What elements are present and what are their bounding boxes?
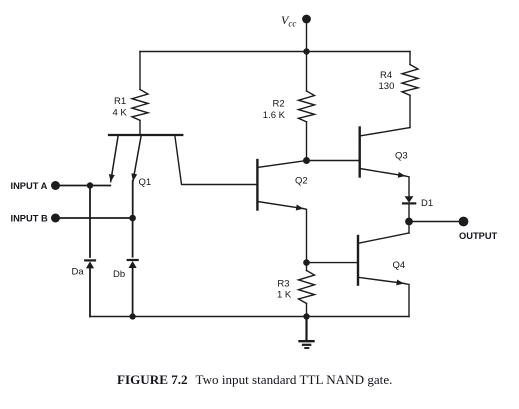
svg-text:Q4: Q4 <box>393 260 406 271</box>
svg-text:Da: Da <box>72 267 85 278</box>
svg-text:INPUT B: INPUT B <box>11 213 48 223</box>
svg-text:Q2: Q2 <box>295 176 308 187</box>
svg-text:R3: R3 <box>277 279 289 290</box>
svg-text:R1: R1 <box>114 96 126 107</box>
svg-text:D1: D1 <box>421 198 433 209</box>
svg-text:Q3: Q3 <box>395 151 408 162</box>
svg-text:Q1: Q1 <box>139 177 152 188</box>
svg-text:Db: Db <box>113 269 125 280</box>
svg-text:R2: R2 <box>273 98 285 109</box>
svg-text:1.6 K: 1.6 K <box>263 110 286 121</box>
svg-text:Vcc: Vcc <box>281 13 296 28</box>
svg-text:Two input standard TTL NAND ga: Two input standard TTL NAND gate. <box>196 372 393 387</box>
svg-text:FIGURE 7.2: FIGURE 7.2 <box>117 372 188 387</box>
svg-text:130: 130 <box>379 81 395 92</box>
svg-text:R4: R4 <box>380 70 392 81</box>
svg-text:1 K: 1 K <box>277 290 292 301</box>
svg-text:OUTPUT: OUTPUT <box>459 231 498 241</box>
svg-text:4 K: 4 K <box>113 107 128 118</box>
svg-text:INPUT A: INPUT A <box>11 181 48 191</box>
